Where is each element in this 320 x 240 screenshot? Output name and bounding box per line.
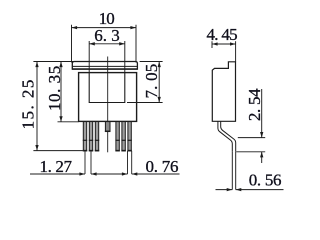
dim 1.27 arrows (outside pointing in) [79, 172, 85, 175]
dim 2.54 extension bottom [236, 151, 265, 153]
center axis line [107, 57, 109, 122]
arrowheads side [212, 42, 263, 191]
dim 2.54 arrows (outside pointing in) [260, 132, 263, 138]
shared top extension line [33, 61, 73, 63]
dim 6.3: dimension line [89, 43, 125, 45]
dim 10.35 arrows [59, 62, 62, 68]
dim 2.54 dimension line tails [261, 89, 263, 138]
pin 5 [122, 122, 125, 151]
dim 15.25: dimension line [36, 62, 38, 151]
dim 10: extension lines [71, 25, 73, 63]
svg-text:7. 05: 7. 05 [142, 64, 161, 99]
dim 0.56 dimension line tails [216, 189, 233, 191]
descender pin6 left edge [127, 151, 129, 174]
dim 7.05 arrows [158, 62, 161, 68]
side view body outline [212, 62, 235, 122]
dim 4.45 extension lines [211, 41, 213, 48]
front view: tab bottom edge [72, 68, 137, 70]
front view: mold body rectangle [79, 73, 137, 122]
pin 4 [116, 122, 119, 151]
dim 6.3: extension lines [88, 41, 90, 73]
front view: tab chamfer line [72, 65, 137, 67]
dim 6.3 arrows [89, 42, 95, 45]
pin 1 [83, 122, 86, 151]
dim 15.25: bottom extension [33, 150, 83, 152]
pin 2 [89, 122, 92, 151]
dim 7.05: dimension line [158, 62, 160, 103]
svg-text:4. 45: 4. 45 [206, 25, 237, 44]
stub bottom cap [105, 130, 111, 132]
side lead outer line with S-bend [218, 121, 232, 152]
dim 15.25 arrows [35, 62, 38, 68]
dim 7.05: extension top [140, 61, 163, 63]
pin 3 [95, 122, 98, 151]
arrowheads front [35, 26, 161, 176]
svg-text:6. 3: 6. 3 [94, 26, 120, 45]
pins [83, 122, 132, 151]
front view: exposed pad window [89, 73, 125, 103]
descender pin6 right edge [131, 151, 133, 174]
dim 7.05: extension bottom [127, 102, 163, 104]
dim 1.27/0.76: dimension line segments [30, 173, 85, 175]
dim 2.54 extension top [238, 137, 265, 139]
svg-text:0. 76: 0. 76 [146, 157, 179, 176]
svg-text:1. 27: 1. 27 [39, 157, 72, 176]
dim 4.45 arrows [212, 42, 218, 45]
dim 10.35: bottom extension [58, 121, 79, 123]
lead tip extension lines down [231, 152, 233, 190]
front view: tab top outline [72, 62, 137, 70]
dim 4.45 dimension line [212, 43, 236, 45]
side lead inner line with S-bend [221, 121, 236, 152]
dim 0.56 arrows (outside pointing in) [227, 188, 233, 191]
descender from pin1 center [84, 151, 86, 174]
svg-text:10. 35: 10. 35 [45, 65, 64, 111]
pin 6 [128, 122, 131, 151]
dim 10: dimension line [72, 27, 137, 29]
svg-text:2. 54: 2. 54 [245, 88, 264, 121]
pin bottom caps [83, 150, 87, 152]
dim 10 arrows [72, 26, 78, 29]
axis line under stub [107, 132, 109, 153]
svg-text:15. 25: 15. 25 [19, 78, 38, 129]
dim 0.76 arrows (outside pointing in) [122, 172, 128, 175]
dim 10.35: dimension line [60, 62, 62, 122]
descender from pin2 center [90, 151, 92, 174]
svg-text:0. 56: 0. 56 [249, 171, 282, 190]
center stub [105, 122, 110, 132]
